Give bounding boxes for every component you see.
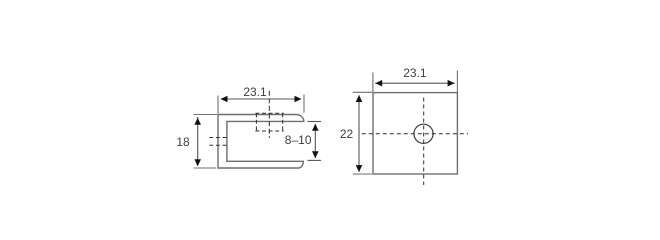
right view: square plan outline — [373, 93, 457, 174]
dimension 22: extension lines — [353, 91, 372, 93]
svg-text:8–10: 8–10 — [285, 133, 312, 147]
dimension 23.1 (right view): dimension line — [375, 82, 454, 84]
dimension 18: dimension line — [197, 117, 199, 166]
dimension 8-10: top arrowhead — [312, 124, 319, 131]
svg-text:23.1: 23.1 — [243, 85, 267, 99]
dimension 18: top arrowhead — [194, 118, 201, 125]
dimension 8-10: extension lines — [308, 121, 322, 123]
dimension 22: dimension line — [358, 95, 360, 172]
dimension 23.1 (left view): right arrowhead — [295, 96, 302, 103]
right view: vertical centerline (dashed) — [423, 98, 425, 186]
dimension 8-10: dimension line — [314, 124, 316, 158]
dimension 22: bottom arrowhead — [356, 165, 363, 172]
dimension 18: bottom arrowhead — [194, 159, 201, 166]
dimension 22: top arrowhead — [356, 95, 363, 102]
svg-text:22: 22 — [340, 127, 354, 141]
dimension 18: extension lines — [194, 114, 218, 116]
svg-text:18: 18 — [176, 135, 190, 149]
dimension 23.1 (right view): left arrowhead — [375, 80, 382, 87]
svg-text:23.1: 23.1 — [403, 66, 427, 80]
right view: screw hole circle — [414, 124, 433, 143]
right view: horizontal centerline (dashed) — [362, 133, 468, 135]
left view: vertical centerline (dashed) — [268, 91, 270, 138]
dimension 23.1 (left view): left arrowhead — [221, 96, 228, 103]
dimension 23.1 (left view): dimension line — [221, 98, 301, 100]
dimension 23.1 (right view): right arrowhead — [448, 80, 455, 87]
dimension 23.1 (left view): extension lines — [217, 96, 219, 114]
dimension 8-10: bottom arrowhead — [312, 151, 319, 158]
left view: clamp profile outline — [218, 115, 304, 169]
dimension 23.1 (right view): extension lines — [372, 72, 374, 92]
left view: hidden hole in back wall (two dashed lines) — [209, 137, 227, 139]
left view: hidden screw-hole rectangle (dashed) — [255, 113, 283, 131]
